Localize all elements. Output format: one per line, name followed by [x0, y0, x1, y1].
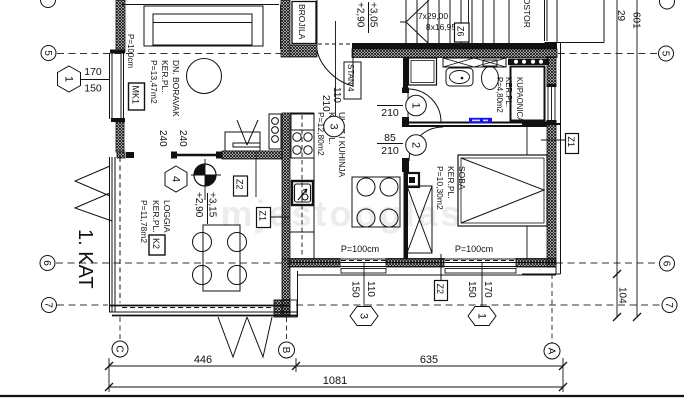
svg-text:MK1: MK1: [131, 86, 141, 105]
kitchen wall hatch: [282, 113, 290, 259]
svg-text:6: 6: [41, 260, 52, 266]
svg-text:1081: 1081: [323, 375, 347, 387]
wardrobe with X: [407, 186, 432, 253]
top wall hatch band: [352, 49, 557, 58]
svg-text:150: 150: [84, 83, 102, 95]
blue highlight element: [469, 118, 492, 123]
svg-text:KER.PL.: KER.PL.: [446, 166, 456, 199]
svg-text:P=13,47m2: P=13,47m2: [149, 60, 159, 104]
kitchen counter mid line: [290, 231, 314, 233]
door1 jamb cap lower / wall corner: [402, 117, 409, 127]
stove burners: [293, 133, 301, 141]
svg-text:5: 5: [660, 51, 671, 57]
bubble 5 right: [659, 46, 674, 61]
svg-text:104: 104: [617, 287, 628, 304]
kupaonica inner box: [511, 67, 545, 121]
svg-text:KUPAONICA: KUPAONICA: [515, 77, 524, 123]
door2 jamb cap bottom: [402, 158, 409, 172]
bubble A: [544, 343, 560, 359]
svg-text:KER.PL.: KER.PL.: [504, 77, 513, 107]
survey marker crosshair: [191, 159, 221, 200]
svg-text:Z2: Z2: [435, 284, 445, 295]
kitchen hood box: [225, 132, 260, 151]
terrace edge right vline: [297, 271, 299, 317]
svg-text:DN. BORAVAK: DN. BORAVAK: [171, 60, 181, 117]
kitchen hood V lines: [237, 120, 258, 145]
svg-text:7: 7: [43, 302, 54, 308]
svg-text:Z1: Z1: [258, 211, 268, 222]
dim line 446-635: [109, 365, 563, 367]
brojila closet wall hatch vertical: [281, 0, 290, 57]
svg-text:210: 210: [381, 107, 399, 119]
svg-text:1: 1: [476, 313, 488, 319]
loggia bottom wall hatch pier: [275, 300, 290, 316]
bubble 7 left: [42, 298, 57, 313]
bubble top-right clipped: [660, 0, 675, 9]
bottom wall window B dashed: [445, 260, 516, 262]
bathroom shelf with X: [443, 58, 506, 67]
hexagon 3 bottom: [350, 307, 378, 326]
bottom border line: [0, 395, 684, 397]
bubble C: [112, 341, 128, 357]
label STAN 4 box: [344, 62, 361, 99]
svg-text:110: 110: [331, 87, 342, 103]
bed outer: [458, 155, 547, 226]
right dim ticks: [613, 270, 641, 321]
loggia bottom pier outline: [274, 300, 297, 317]
svg-text:6: 6: [661, 261, 672, 267]
label Z2 loggia box: [234, 176, 248, 196]
svg-text:85: 85: [384, 132, 396, 144]
svg-text:SOBA: SOBA: [457, 166, 467, 190]
svg-text:A: A: [546, 348, 557, 355]
svg-text:STAN 4: STAN 4: [346, 64, 355, 92]
bed inner: [461, 158, 544, 223]
bottom wall hatch pier right: [516, 259, 556, 268]
svg-text:P=100cm: P=100cm: [126, 34, 135, 68]
stair leader line Z6: [468, 0, 470, 49]
bottom wall window A lines: [341, 260, 386, 262]
left window panes: [110, 53, 124, 119]
living-loggia wall hatch band: [222, 151, 282, 159]
round table living room: [187, 59, 222, 94]
svg-text:240: 240: [177, 130, 188, 147]
svg-text:1: 1: [63, 76, 75, 82]
hexagon 1 left: [58, 66, 81, 92]
right wall outer face line: [560, 42, 562, 274]
svg-text:P=10,30m2: P=10,30m2: [435, 166, 445, 210]
bottom wall outer line: [290, 266, 556, 268]
svg-text:210: 210: [381, 145, 399, 157]
svg-text:+3,05: +3,05: [368, 2, 379, 28]
svg-text:5: 5: [42, 50, 53, 56]
stair direction chevron: [400, 0, 429, 44]
bottom wall inner face: [289, 258, 556, 260]
svg-text:P=12,80m2: P=12,80m2: [316, 112, 326, 156]
dim 210 door1: [377, 105, 403, 107]
bottom wall window line2: [290, 262, 556, 264]
left exterior wall hatch upper: [116, 0, 125, 52]
bubble 6 right: [660, 256, 675, 271]
svg-text:P=100cm: P=100cm: [341, 244, 379, 254]
svg-text:150: 150: [350, 281, 361, 298]
grid axis 5 dashed line: [57, 53, 658, 55]
grid axis 6 dashed line: [56, 262, 659, 264]
svg-text:+3,15: +3,15: [207, 192, 218, 218]
right dim extension lines: [617, 0, 637, 317]
svg-text:7: 7: [663, 302, 674, 308]
svg-text:P=100cm: P=100cm: [455, 244, 493, 254]
bathroom black radiator bar: [508, 59, 549, 66]
wall band under bathroom: [409, 123, 547, 127]
entrance door arc STAN 4: [317, 50, 353, 86]
bottom dim extension B: [295, 358, 297, 372]
svg-text:3: 3: [358, 313, 370, 319]
loggia right wall hatch lower: [282, 259, 290, 316]
nightstand lines: [526, 127, 528, 259]
bottom dim extension A: [562, 358, 564, 392]
svg-text:170: 170: [84, 66, 102, 78]
label Z1 right box: [541, 134, 579, 154]
circled 1 door: [406, 95, 427, 116]
svg-text:7x29,00: 7x29,00: [418, 11, 449, 21]
left exterior wall hatch mid: [116, 122, 124, 152]
loggia bottom chevrons: [218, 317, 272, 357]
svg-text:110: 110: [365, 281, 376, 297]
door1 swing arc: [408, 89, 441, 122]
grid axis C extension dashed: [119, 317, 121, 341]
bathroom sink: [446, 68, 473, 86]
label K2 box: [149, 235, 165, 255]
loggia glazing dashed line: [119, 157, 121, 303]
dim line 1081: [109, 386, 563, 388]
window dim ext line right: [481, 262, 483, 306]
svg-text:601: 601: [631, 12, 642, 29]
circled 2 door: [406, 135, 427, 156]
top wall black band: [352, 43, 557, 49]
stairwell wall lines right: [545, 0, 605, 43]
living-loggia separation beam: [174, 154, 220, 157]
kitchen hood slot: [233, 143, 260, 147]
kitchen appliance column left: [269, 114, 281, 149]
window sill B: [445, 269, 516, 274]
door1 jamb cap upper: [402, 88, 409, 94]
beam cap right: [216, 152, 222, 159]
svg-text:Z2: Z2: [235, 179, 245, 190]
svg-text:150: 150: [466, 281, 477, 298]
svg-text:446: 446: [194, 354, 212, 366]
kitchen stove box: [291, 130, 314, 158]
bubble 5 left: [41, 46, 56, 61]
door1 leaf: [407, 89, 409, 122]
svg-text:635: 635: [420, 354, 438, 366]
living room right boundary line: [280, 5, 282, 50]
svg-text:4: 4: [170, 176, 182, 182]
entrance door leaf: [352, 49, 354, 87]
svg-text:1. KAT: 1. KAT: [74, 229, 96, 289]
survey marker circle: [194, 164, 216, 186]
left window cap bottom: [111, 118, 125, 122]
kitchen counter centerline dashed: [301, 115, 303, 256]
window sill A: [341, 269, 386, 274]
left wall black cap: [126, 152, 134, 158]
loggia chairs: [193, 233, 212, 252]
svg-text:LOGGIA: LOGGIA: [162, 200, 172, 233]
bed duvet diagonals: [461, 158, 544, 223]
hall-SOBA wall lower black: [404, 172, 409, 259]
bottom wall hatch pier mid: [386, 259, 444, 268]
stair treads: [406, 0, 494, 44]
label Z2 bottom box: [435, 254, 448, 301]
svg-text:+2,90: +2,90: [193, 192, 204, 218]
svg-text:1: 1: [410, 102, 422, 108]
level fraction line top: [368, 2, 370, 33]
dining chairs: [357, 178, 375, 196]
loggia bottom wall lines: [109, 305, 290, 307]
bottom-right outer corner lines: [522, 267, 561, 274]
svg-text:170: 170: [482, 281, 493, 298]
svg-text:2: 2: [410, 142, 422, 148]
bottom wall hatch pier left: [289, 259, 340, 268]
svg-text:C: C: [114, 345, 125, 352]
wall face right of brojila: [316, 0, 318, 45]
brojila closet box: [292, 2, 316, 44]
kitchen sink unit: [292, 181, 313, 205]
bubble 4 top-left clipped: [41, 0, 56, 8]
wall line under bathroom right: [522, 123, 560, 125]
dining table: [352, 177, 400, 227]
right exterior wall hatch: [547, 57, 556, 267]
hexagon 1 bottom: [468, 307, 496, 326]
left wall hatch end piece: [117, 152, 125, 158]
loggia glazing front lines: [110, 157, 116, 312]
loggia glazing chevrons left: [75, 166, 112, 221]
svg-text:Z1: Z1: [566, 137, 576, 148]
kitchen upper cabinet: [291, 114, 314, 130]
svg-text:KER.PL.: KER.PL.: [160, 60, 170, 93]
svg-text:3: 3: [328, 123, 340, 129]
hall-SOBA wall upper black: [403, 57, 408, 90]
svg-text:B: B: [280, 347, 291, 354]
wardrobe niche fixture: [405, 173, 419, 187]
svg-text:P=11,78m2: P=11,78m2: [139, 200, 149, 243]
sofa inner seat: [153, 14, 252, 45]
door2 swing arc: [409, 127, 443, 161]
grid axis A extension dashed: [551, 274, 553, 343]
grid axis B extension dashed: [286, 317, 288, 342]
window dim ext line left: [363, 262, 365, 306]
kitchen counter front line: [313, 113, 315, 259]
circled 3: [324, 116, 345, 137]
washing machine: [409, 58, 437, 85]
svg-text:BROJILA: BROJILA: [297, 4, 307, 40]
svg-text:210: 210: [320, 95, 331, 112]
svg-text:+2,90: +2,90: [355, 2, 366, 28]
bubble 7 right: [662, 298, 677, 313]
terrace edge line top: [122, 4, 279, 6]
svg-text:PROSTOR: PROSTOR: [522, 0, 532, 28]
svg-text:K2: K2: [151, 238, 161, 249]
hood leader line: [255, 151, 257, 197]
sofa outer: [144, 6, 263, 46]
label MK1 box: [129, 83, 145, 110]
door3 leader line: [335, 21, 337, 116]
bubble 6 left: [40, 256, 55, 271]
beam cap left: [171, 152, 177, 159]
balcony slab line below bottom wall: [297, 274, 556, 276]
hexagon 4 loggia: [165, 166, 187, 192]
toilet: [483, 60, 497, 66]
svg-text:KER.PL.: KER.PL.: [151, 200, 161, 233]
grid axis 7 dashed line: [57, 304, 661, 306]
right wall window: [547, 86, 557, 121]
left window cap top: [110, 50, 125, 54]
brojila closet wall hatch bottom: [290, 45, 317, 57]
svg-text:29: 29: [615, 10, 626, 22]
entrance door threshold dashed: [318, 43, 352, 45]
label Z6 box: [455, 23, 470, 42]
svg-text:P=4,80m2: P=4,80m2: [495, 77, 504, 113]
label Z1 kitchen box: [257, 208, 291, 228]
kitchen counter top edge: [290, 112, 314, 114]
bubble B: [279, 342, 295, 358]
sofa back line: [153, 22, 252, 24]
bottom dim extension C: [108, 358, 110, 392]
svg-text:240: 240: [157, 130, 168, 147]
stair landing edge: [508, 0, 510, 44]
svg-text:Z6: Z6: [456, 26, 466, 37]
stair bottom line: [404, 43, 509, 45]
svg-text:8x16,95: 8x16,95: [426, 22, 457, 32]
loggia table: [203, 225, 240, 291]
